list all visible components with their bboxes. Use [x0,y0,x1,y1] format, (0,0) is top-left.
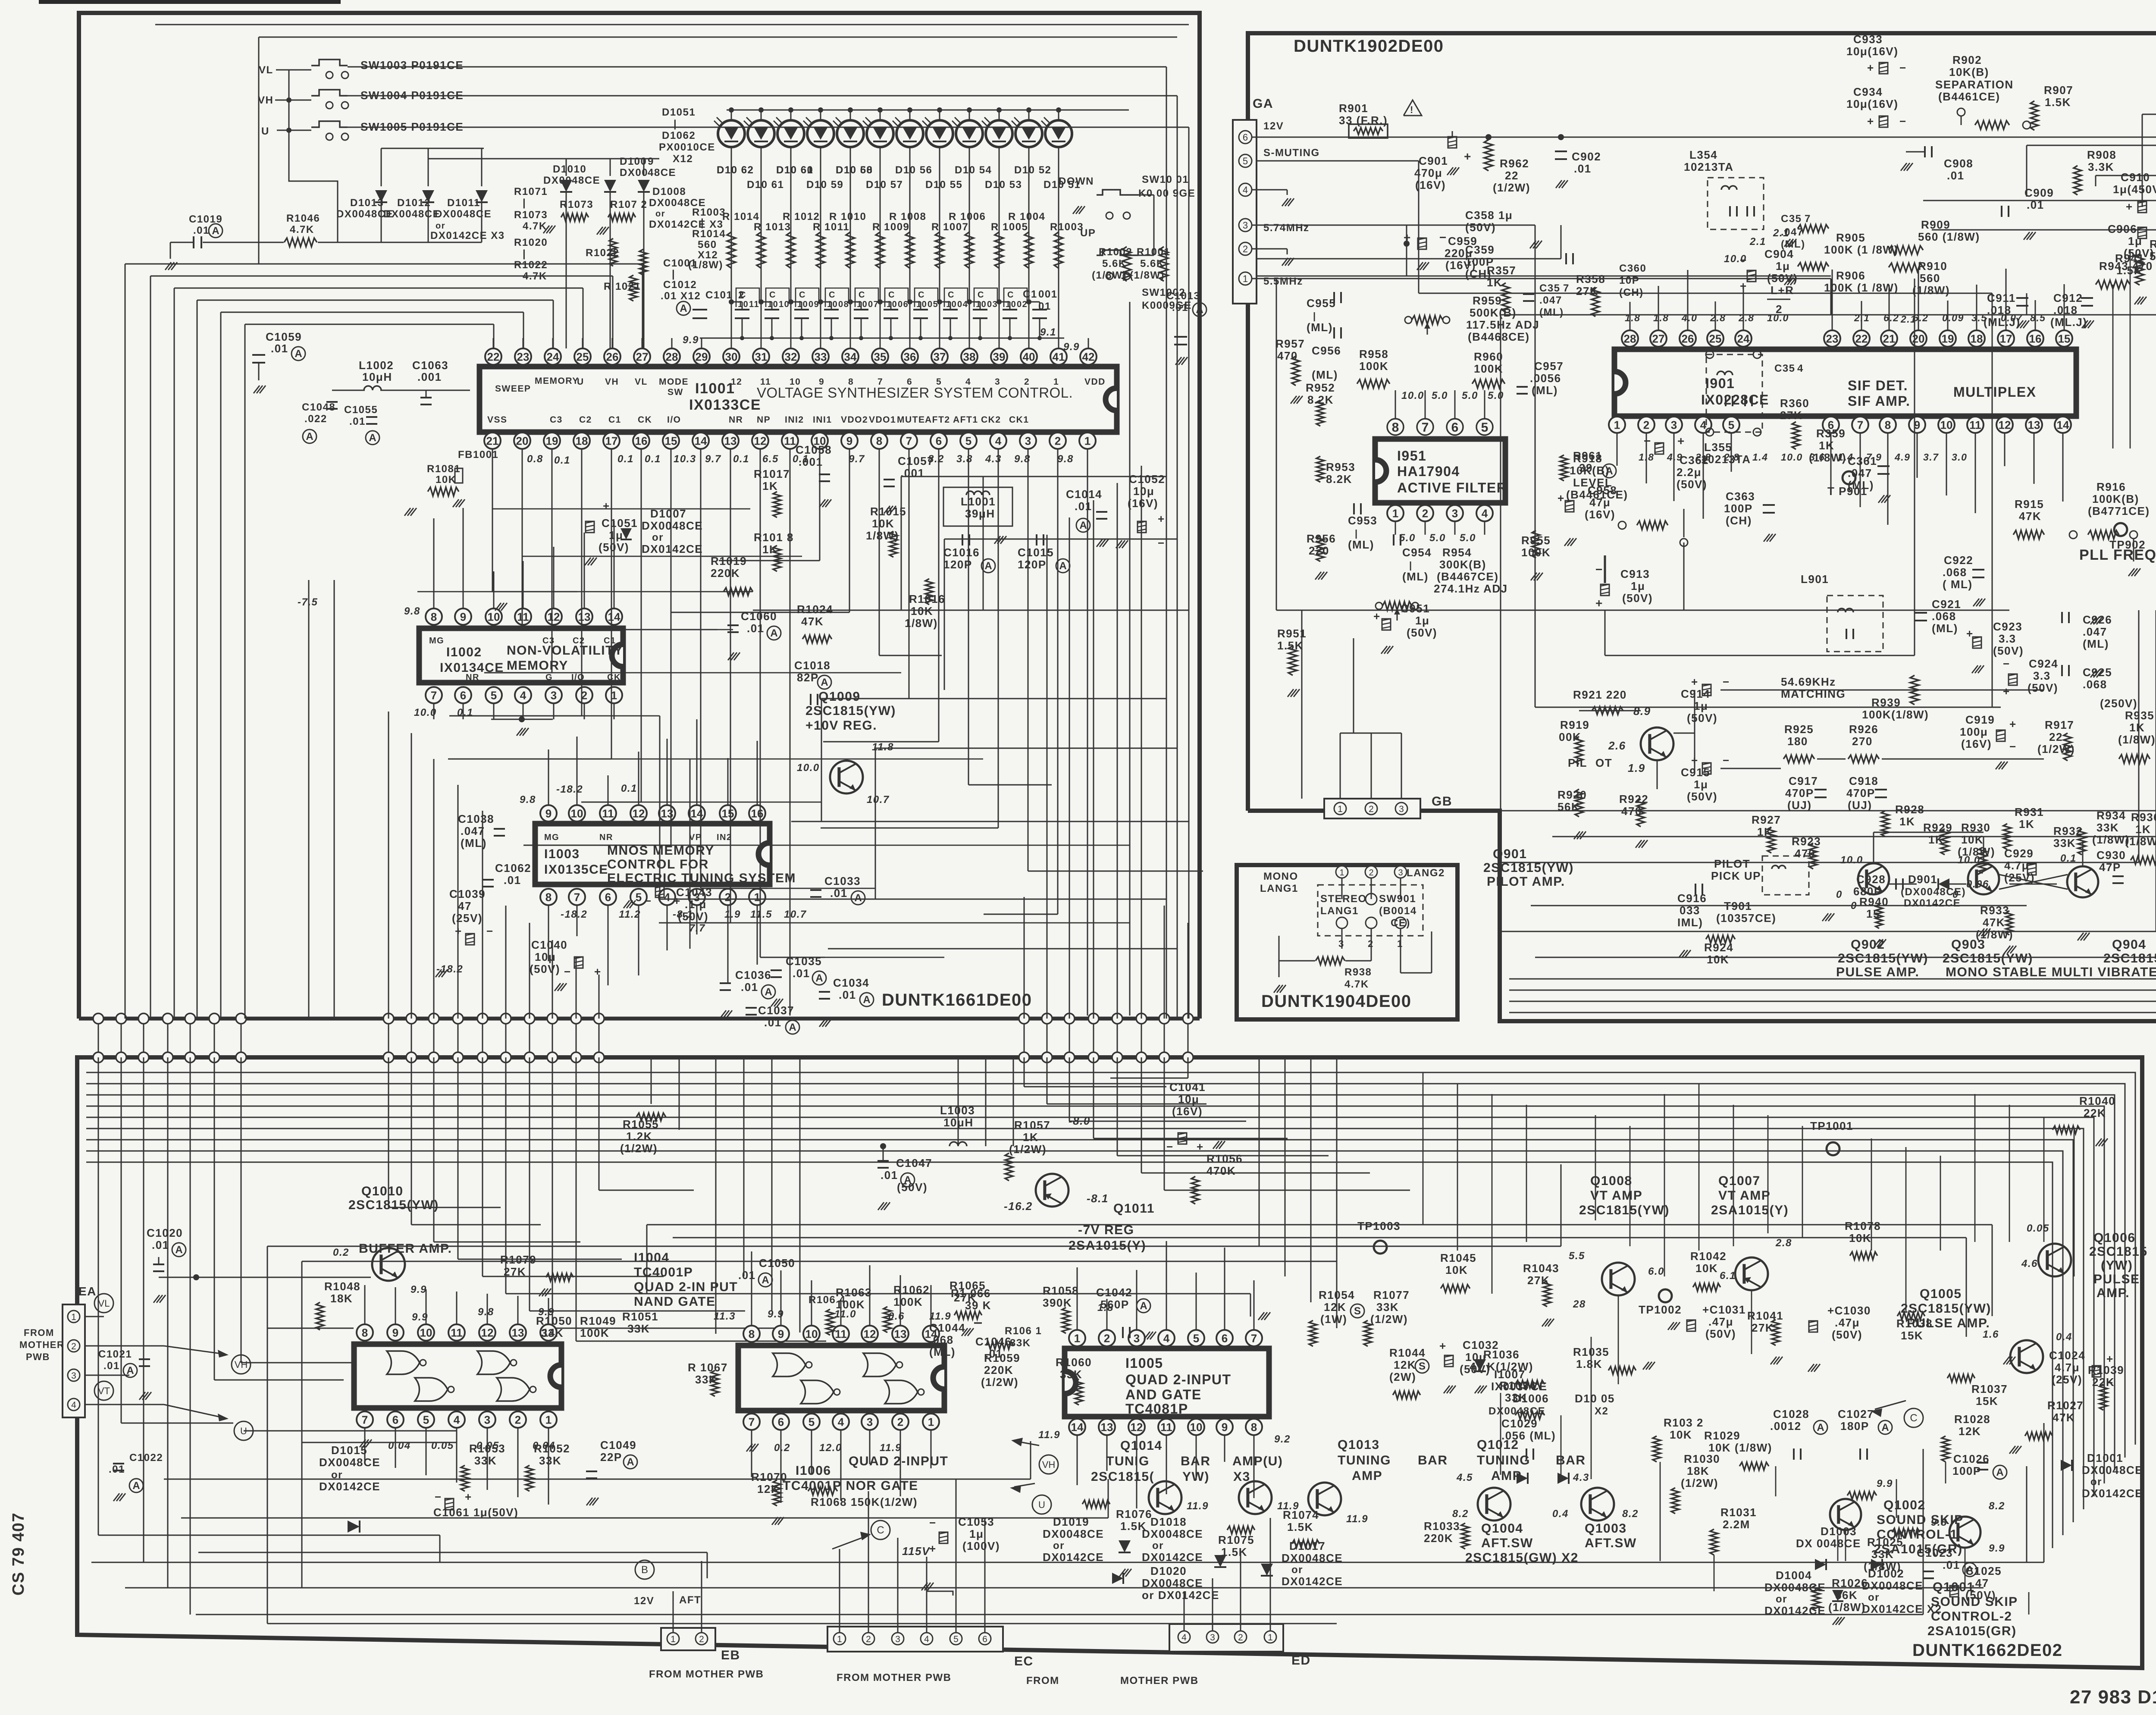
svg-text:R1060: R1060 [1056,1356,1092,1369]
svg-text:47K: 47K [2053,1411,2075,1424]
svg-text:.01: .01 [504,874,521,887]
svg-text:C: C [978,290,984,300]
svg-text:VL: VL [98,1298,110,1309]
svg-text:R952: R952 [1306,381,1335,394]
svg-text:13: 13 [2028,418,2040,431]
svg-text:3: 3 [1399,804,1404,814]
svg-text:(ML.J): (ML.J) [1984,316,2021,329]
svg-text:C924: C924 [2029,657,2058,670]
svg-text:48CE: 48CE [648,167,676,179]
svg-text:R1026: R1026 [1832,1577,1868,1590]
svg-text:C1052: C1052 [1129,473,1165,486]
svg-text:D1018: D1018 [1150,1515,1187,1528]
svg-text:D10 05: D10 05 [1575,1392,1615,1405]
svg-text:S: S [1419,1361,1426,1372]
svg-text:R1017: R1017 [754,467,790,480]
svg-text:SW10 01: SW10 01 [1142,174,1189,185]
svg-text:1μ: 1μ [1694,778,1708,791]
svg-text:AND GATE: AND GATE [1125,1387,1202,1402]
svg-text:100K (1 /8W): 100K (1 /8W) [1824,243,1899,256]
svg-text:2: 2 [1422,507,1428,520]
svg-text:R927: R927 [1752,813,1781,826]
svg-text:−: − [435,1490,442,1503]
svg-text:1: 1 [1339,868,1344,878]
svg-text:.001: .001 [417,370,442,383]
svg-text:6: 6 [460,689,466,702]
svg-text:+: + [1439,1339,1447,1352]
svg-text:A: A [821,677,828,688]
svg-text:SEPARATION: SEPARATION [1935,78,2014,91]
svg-text:C904: C904 [1764,248,1794,260]
svg-text:TUNING: TUNING [1338,1453,1391,1467]
svg-text:39: 39 [993,350,1006,363]
svg-text:10.0: 10.0 [1401,390,1424,401]
svg-text:R1073: R1073 [514,209,548,221]
svg-text:R357: R357 [1487,264,1516,277]
svg-text:C1047: C1047 [896,1157,932,1169]
svg-text:5.0: 5.0 [1460,532,1476,544]
svg-text:NAND GATE: NAND GATE [634,1295,716,1309]
svg-text:−: − [1723,675,1730,688]
svg-text:R915: R915 [2015,498,2044,511]
svg-text:R960: R960 [1474,350,1503,363]
svg-text:560: 560 [698,239,717,251]
svg-text:I/O: I/O [667,415,681,425]
svg-text:.01: .01 [741,981,758,994]
svg-text:5.6K: 5.6K [2150,250,2156,263]
svg-text:34: 34 [844,350,857,363]
svg-text:0.09: 0.09 [1942,312,1964,323]
svg-text:R106 4: R106 4 [808,1294,846,1306]
svg-text:12V: 12V [1263,120,1284,132]
svg-text:R1048: R1048 [324,1280,360,1293]
svg-text:35: 35 [874,350,887,363]
svg-text:1: 1 [1243,273,1248,284]
svg-text:0.05: 0.05 [431,1440,454,1452]
svg-text:-18.2: -18.2 [436,963,463,975]
svg-text:R916: R916 [2096,480,2126,493]
svg-text:EB: EB [721,1648,740,1662]
svg-text:R925: R925 [1784,723,1814,736]
svg-text:R1044: R1044 [1389,1346,1426,1359]
svg-text:A: A [212,225,219,237]
svg-text:5.6K: 5.6K [1140,258,1165,270]
svg-text:C910: C910 [2121,171,2150,184]
svg-text:13: 13 [894,1327,907,1340]
svg-text:−: − [486,925,494,937]
svg-text:R1043: R1043 [1523,1262,1559,1275]
svg-text:INI2: INI2 [785,415,804,425]
svg-text:R1002: R1002 [1099,246,1132,258]
svg-text:1K: 1K [2135,823,2151,836]
svg-text:2SC1815(YW): 2SC1815(YW) [1579,1203,1670,1217]
svg-text:R106 1: R106 1 [1005,1325,1042,1337]
svg-text:FB1001: FB1001 [458,449,498,461]
svg-text:33K: 33K [541,1326,564,1339]
svg-text:R953: R953 [1326,461,1355,473]
svg-text:+: + [2106,1352,2114,1365]
svg-text:33K: 33K [2053,837,2076,850]
svg-text:C1044: C1044 [929,1321,965,1334]
svg-text:C: C [799,290,806,300]
svg-text:QUAD 2-IN PUT: QUAD 2-IN PUT [634,1280,738,1294]
svg-text:1.8: 1.8 [1625,312,1640,323]
svg-text:R918: R918 [1573,452,1602,465]
svg-text:DX0048CE: DX0048CE [543,175,600,186]
svg-text:A: A [1966,1564,1973,1576]
svg-text:R917: R917 [2045,718,2074,731]
svg-text:(10357CE): (10357CE) [1716,912,1776,925]
svg-text:11.2: 11.2 [619,909,641,920]
svg-text:(1/2W): (1/2W) [981,1376,1018,1389]
svg-text:BUFFER AMP.: BUFFER AMP. [359,1242,452,1256]
svg-text:11: 11 [451,1326,463,1339]
svg-text:R1078: R1078 [1845,1220,1881,1232]
svg-text:C35: C35 [1539,282,1561,294]
svg-text:S: S [1354,1305,1361,1317]
svg-text:(16V): (16V) [1128,497,1158,510]
svg-text:C1014: C1014 [1066,488,1102,501]
svg-text:6: 6 [936,434,942,447]
svg-text:7: 7 [1857,418,1863,431]
svg-text:33K: 33K [1505,1391,1527,1404]
svg-text:R1045: R1045 [1440,1251,1476,1264]
svg-text:|: | [523,197,526,209]
svg-text:MEMORY: MEMORY [507,658,568,673]
svg-text:I1003: I1003 [544,847,580,861]
svg-text:0.2: 0.2 [774,1442,790,1454]
svg-text:1μ: 1μ [1776,260,1790,273]
svg-text:R1028: R1028 [1954,1413,1990,1426]
svg-text:4.7K: 4.7K [523,220,547,232]
svg-text:TP1002: TP1002 [1639,1303,1682,1316]
svg-text:AFT.SW: AFT.SW [1585,1536,1637,1550]
svg-text:Q1002: Q1002 [1883,1498,1926,1512]
svg-text:20: 20 [516,434,529,447]
svg-text:11: 11 [1160,1420,1172,1433]
svg-text:R1050: R1050 [536,1314,572,1327]
svg-text:U: U [577,377,584,387]
svg-text:C1024: C1024 [2049,1349,2085,1362]
svg-text:15: 15 [2058,332,2071,345]
svg-text:C922: C922 [1944,554,1973,567]
svg-text:(1/8W): (1/8W) [1864,1560,1901,1573]
svg-text:4: 4 [838,1415,844,1428]
svg-text:+10V REG.: +10V REG. [805,718,877,733]
svg-text:D1020: D1020 [1150,1565,1187,1577]
svg-text:29: 29 [696,350,708,363]
svg-text:+: + [2003,685,2010,698]
svg-text:C: C [769,290,776,300]
svg-text:(ML): (ML) [1932,622,1958,635]
svg-text:A: A [1196,304,1203,316]
svg-text:56K: 56K [1835,1589,1858,1602]
svg-text:10: 10 [916,300,927,309]
svg-text:12K: 12K [1394,1358,1416,1371]
svg-text:2SC1815(GW) X2: 2SC1815(GW) X2 [1465,1551,1579,1565]
svg-text:C35: C35 [1774,363,1796,374]
svg-text:7: 7 [1422,420,1429,435]
svg-text:D10 53: D10 53 [985,179,1022,191]
svg-text:05: 05 [928,300,938,309]
svg-text:C1048: C1048 [302,401,335,413]
svg-text:(50V): (50V) [1832,1328,1862,1341]
svg-text:C1016: C1016 [943,546,980,559]
svg-text:560 (1/8W): 560 (1/8W) [1918,230,1980,243]
svg-text:NP: NP [757,415,771,425]
svg-text:NR: NR [466,673,479,682]
svg-text:R931: R931 [2015,806,2044,818]
svg-text:220K: 220K [984,1364,1013,1376]
svg-text:2SC1815(YW): 2SC1815(YW) [348,1198,439,1212]
svg-text:.047: .047 [1539,295,1562,306]
svg-text:C1036: C1036 [735,969,771,981]
svg-text:(B4467CE): (B4467CE) [1437,570,1499,583]
svg-text:Q1003: Q1003 [1585,1521,1627,1536]
svg-text:+: + [674,894,681,907]
svg-text:MONO STABLE MULTI VIBRATER: MONO STABLE MULTI VIBRATER [1946,965,2156,979]
svg-text:2.6: 2.6 [1608,739,1626,752]
svg-text:9.9: 9.9 [1989,1543,2005,1554]
svg-text:IML): IML) [1677,916,1703,929]
svg-text:10μ: 10μ [1178,1093,1199,1106]
svg-text:33K: 33K [1010,1337,1031,1349]
svg-text:9: 9 [648,156,654,167]
svg-text:D1013: D1013 [350,197,384,209]
svg-text:R935: R935 [2125,709,2154,722]
svg-text:4: 4 [1163,1332,1170,1345]
svg-text:27K: 27K [504,1265,526,1278]
svg-text:+: + [1595,596,1603,610]
svg-text:.022: .022 [304,413,327,425]
svg-text:DX0048CE: DX0048CE [649,197,706,209]
svg-text:Q1013: Q1013 [1338,1438,1380,1452]
svg-text:−: − [1166,1140,1174,1153]
svg-text:(50V): (50V) [1687,790,1717,803]
svg-text:10K: 10K [911,605,933,618]
svg-text:C1034: C1034 [833,976,869,989]
svg-text:2SC1815(YW): 2SC1815(YW) [1943,951,2033,966]
svg-text:10: 10 [976,300,987,309]
svg-text:PICK UP: PICK UP [1711,869,1761,882]
svg-text:R 1012: R 1012 [783,211,820,223]
svg-text:Q1009: Q1009 [818,690,861,704]
svg-text:47K: 47K [1983,916,2005,929]
svg-text:22: 22 [2049,731,2063,743]
svg-text:9.1: 9.1 [1040,326,1056,338]
svg-text:+: + [1740,279,1747,292]
svg-text:5.74MHz: 5.74MHz [1263,222,1310,234]
svg-text:3.3K: 3.3K [2088,160,2114,173]
svg-text:VOLTAGE SYNTHESIZER SYSTEM C: VOLTAGE SYNTHESIZER SYSTEM CONTROL. [757,385,1073,401]
svg-text:R1051: R1051 [622,1310,658,1323]
svg-text:3.8: 3.8 [956,453,973,465]
svg-text:(50V): (50V) [897,1181,928,1194]
svg-text:TC4001P: TC4001P [634,1265,693,1279]
svg-text:C1063: C1063 [412,359,448,372]
svg-text:5: 5 [636,890,642,903]
svg-text:R959: R959 [1473,294,1502,307]
svg-text:8.2: 8.2 [1622,1508,1639,1520]
svg-text:0.06: 0.06 [1966,878,1989,890]
svg-text:PULSE AMP.: PULSE AMP. [1907,1316,1990,1330]
svg-text:C1033: C1033 [824,875,861,887]
svg-text:VH: VH [1042,1459,1056,1470]
svg-text:EA: EA [78,1285,97,1298]
svg-text:SW1002: SW1002 [1142,287,1185,298]
svg-text:33: 33 [815,350,827,363]
svg-text:7: 7 [362,1413,368,1426]
svg-text:1.8K: 1.8K [1576,1358,1602,1370]
svg-text:.047: .047 [461,825,485,837]
svg-text:Q904: Q904 [2112,937,2146,952]
svg-text:FROM MOTHER PWB: FROM MOTHER PWB [649,1668,764,1680]
svg-text:8.2K: 8.2K [1307,393,1334,406]
svg-text:Q902: Q902 [1851,937,1885,952]
svg-text:-7.5: -7.5 [298,596,318,608]
svg-text:(1/2W): (1/2W) [620,1142,658,1155]
svg-text:NR: NR [599,833,613,842]
svg-text:6.1: 6.1 [1720,1270,1736,1282]
svg-text:L355: L355 [1704,441,1732,454]
svg-text:11.9: 11.9 [1038,1429,1060,1441]
svg-text:9: 9 [846,434,852,447]
svg-text:0.05: 0.05 [2027,1223,2049,1234]
svg-text:1: 1 [928,1415,934,1428]
svg-text:TP1001: TP1001 [1810,1119,1853,1132]
svg-text:12: 12 [1999,418,2011,431]
svg-text:GB: GB [1432,794,1452,809]
svg-text:+: + [1867,61,1874,74]
svg-text:22: 22 [1855,332,1868,345]
svg-text:C919: C919 [1965,713,1995,726]
svg-text:R359: R359 [1816,427,1846,440]
svg-text:1μ(450V): 1μ(450V) [2113,183,2156,196]
svg-text:DX0048CE: DX0048CE [2082,1464,2143,1477]
svg-text:D1051: D1051 [662,107,696,118]
svg-text:001: 001 [1038,288,1058,300]
svg-text:DX0048CE: DX0048CE [642,519,703,532]
svg-text:(50V): (50V) [1767,272,1798,285]
svg-text:R921 220: R921 220 [1573,688,1627,701]
svg-text:(CH): (CH) [1726,514,1752,527]
svg-text:MULTIPLEX: MULTIPLEX [1953,384,2036,400]
svg-text:X3: X3 [1233,1470,1250,1484]
svg-text:PILOT AMP.: PILOT AMP. [1487,875,1565,889]
svg-text:17: 17 [2000,332,2012,345]
svg-text:DX0142CE X2: DX0142CE X2 [1862,1602,1942,1615]
svg-text:10: 10 [571,807,583,820]
svg-text:NON-VOLATILITY: NON-VOLATILITY [507,643,623,658]
svg-text:.01: .01 [881,1169,898,1182]
svg-text:1K: 1K [1819,439,1834,452]
svg-text:R957: R957 [1275,337,1305,350]
svg-text:10μ: 10μ [1133,485,1154,498]
svg-text:R1068 150K(1/2W): R1068 150K(1/2W) [811,1496,918,1508]
svg-text:4.9: 4.9 [1894,451,1910,463]
svg-text:or: or [655,209,665,219]
svg-text:DUNTK1904DE00: DUNTK1904DE00 [1261,992,1412,1011]
svg-text:22: 22 [487,350,500,363]
svg-text:VL: VL [635,377,648,387]
svg-text:28: 28 [666,350,678,363]
svg-text:I1002: I1002 [446,645,482,659]
svg-text:5: 5 [808,1415,815,1428]
svg-text:DX0142CE: DX0142CE [319,1480,380,1493]
svg-text:R1029: R1029 [1704,1429,1740,1442]
svg-text:9.2: 9.2 [1274,1433,1291,1445]
svg-text:A: A [627,1456,634,1468]
svg-text:6.5: 6.5 [762,453,779,465]
svg-text:|: | [674,118,677,130]
svg-text:0: 0 [1952,889,1959,900]
svg-text:10K: 10K [1445,1264,1468,1276]
svg-text:R1027: R1027 [2047,1399,2084,1412]
svg-text:9.9: 9.9 [412,1311,428,1323]
svg-text:DX0048CE: DX0048CE [1142,1527,1203,1540]
svg-text:220K: 220K [1424,1532,1453,1545]
svg-text:6.2: 6.2 [1883,312,1899,323]
svg-text:C928: C928 [1856,873,1886,886]
svg-text:2SC1815(YW): 2SC1815(YW) [1838,951,1928,966]
svg-text:1: 1 [837,1634,842,1644]
svg-text:DX0048CE: DX0048CE [435,208,492,220]
svg-text:C1037: C1037 [758,1004,794,1017]
svg-text:AFT1: AFT1 [953,415,978,425]
svg-text:1.4: 1.4 [1752,451,1768,463]
svg-text:2: 2 [1055,434,1061,447]
svg-text:R908: R908 [2087,148,2116,161]
svg-text:I/O: I/O [571,673,585,682]
svg-text:VL: VL [259,64,273,76]
svg-text:C1027: C1027 [1838,1408,1874,1420]
svg-text:4: 4 [1243,185,1248,195]
svg-text:.068: .068 [1943,566,1967,579]
svg-text:.068: .068 [929,1333,954,1346]
svg-text:C912: C912 [2053,292,2083,304]
svg-text:3: 3 [895,1634,900,1644]
svg-text:A: A [765,986,772,998]
svg-text:.01: .01 [1943,1558,1960,1571]
svg-text:25: 25 [1709,332,1722,345]
svg-text:+: + [1464,150,1472,163]
svg-text:C363: C363 [1726,490,1755,503]
svg-text:31: 31 [755,350,768,363]
svg-text:I1001: I1001 [695,380,735,397]
svg-text:13: 13 [512,1326,524,1339]
svg-text:300K(B): 300K(B) [1439,558,1486,571]
svg-text:47: 47 [458,900,472,912]
svg-text:FROM: FROM [1026,1675,1059,1687]
svg-text:AMP.: AMP. [2096,1286,2130,1300]
svg-text:1.6: 1.6 [1983,1329,1999,1340]
svg-text:(50V): (50V) [1407,626,1437,639]
svg-text:C359: C359 [1465,243,1495,256]
svg-text:274.1Hz ADJ: 274.1Hz ADJ [1434,582,1508,595]
svg-text:QUAD 2-INPUT: QUAD 2-INPUT [1125,1372,1232,1387]
svg-text:(100V): (100V) [962,1539,1000,1552]
svg-text:R1070: R1070 [751,1470,787,1483]
svg-text:SW: SW [667,387,683,397]
svg-text:10K (1/8W): 10K (1/8W) [1708,1441,1772,1454]
svg-text:10.0: 10.0 [1724,253,1747,265]
svg-text:10: 10 [1006,300,1016,309]
svg-text:4: 4 [1797,363,1804,374]
svg-text:C906: C906 [2108,223,2137,235]
svg-text:(2W): (2W) [1389,1370,1416,1383]
svg-text:L901: L901 [1801,573,1829,586]
svg-text:13: 13 [1101,1420,1113,1433]
